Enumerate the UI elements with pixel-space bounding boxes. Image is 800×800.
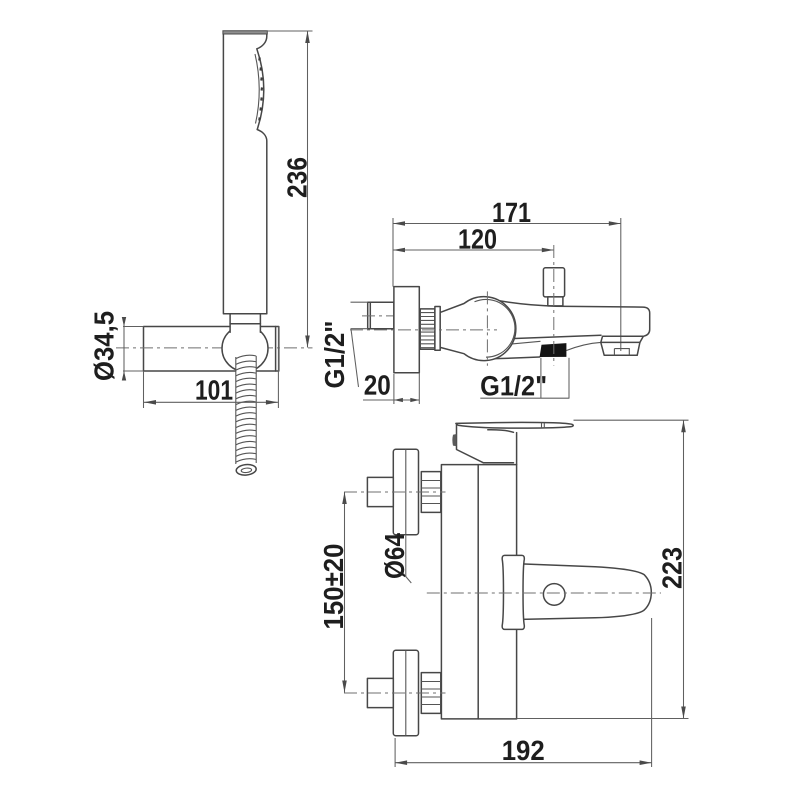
- lower inlet eccentric disc: [393, 650, 418, 735]
- dimension 192: [394, 738, 396, 767]
- dimension Ø34,5: [123, 326, 144, 328]
- G1/2 bottom thread black ring: [540, 343, 567, 357]
- wall union fitting (side view): [368, 302, 394, 329]
- body barrel and spout: [492, 300, 650, 337]
- handset spray face inner line: [255, 54, 259, 124]
- svg-text:101: 101: [195, 375, 233, 406]
- upper inlet eccentric disc: [393, 449, 418, 534]
- hose end cap: [236, 464, 257, 476]
- G1/2" bottom label: [540, 358, 542, 398]
- svg-text:Ø64: Ø64: [379, 533, 410, 579]
- dome inner arc: [475, 299, 515, 357]
- upper inlet centerline: [344, 491, 446, 493]
- handset connector nut: [231, 315, 260, 346]
- svg-text:192: 192: [502, 735, 545, 766]
- svg-text:Ø34,5: Ø34,5: [89, 311, 120, 381]
- handset spray nozzles: [258, 57, 261, 60]
- spout underside lines: [498, 335, 601, 339]
- hand shower handset body: [223, 34, 266, 314]
- svg-text:20: 20: [364, 370, 391, 401]
- lever axis centerline: [427, 592, 661, 594]
- dimension 236: [267, 30, 313, 32]
- top cap: [457, 424, 514, 463]
- shower hose (spiral): [236, 349, 256, 373]
- dimension 223: [574, 419, 689, 421]
- upper inlet hex nut: [421, 472, 441, 513]
- G1/2 left label leader: [351, 301, 368, 303]
- dimension 101: [143, 371, 145, 408]
- lower inlet hex nut: [421, 673, 441, 714]
- svg-text:G1/2": G1/2": [319, 321, 350, 389]
- lever screw hole: [543, 584, 565, 606]
- wall plate (side view): [394, 287, 419, 373]
- lower inlet centerline: [344, 692, 446, 694]
- wall bracket cylinder: [144, 327, 279, 372]
- dimension 150±20: [344, 492, 346, 693]
- knob / 120 centerline: [553, 245, 555, 366]
- svg-text:G1/2": G1/2": [480, 370, 547, 401]
- aerator: [601, 336, 643, 355]
- wall bracket end cap line: [275, 327, 277, 372]
- svg-text:150±20: 150±20: [318, 544, 349, 630]
- lower inlet wall connector: [367, 678, 393, 707]
- swivel ball joint: [222, 325, 268, 371]
- cartridge dome (cone): [440, 297, 516, 361]
- svg-text:171: 171: [492, 197, 531, 228]
- body axis centerline: [350, 329, 497, 331]
- dimension 120: [393, 249, 554, 251]
- dimension 20: [393, 374, 395, 404]
- fitting centerline: [362, 315, 400, 317]
- bracket centerline: [116, 347, 313, 349]
- svg-text:236: 236: [282, 157, 313, 198]
- dimension Ø64: [405, 536, 407, 577]
- handset top cap: [223, 31, 267, 34]
- diverter knob: [543, 268, 564, 297]
- svg-text:120: 120: [458, 224, 497, 255]
- svg-text:223: 223: [657, 547, 688, 589]
- upper inlet wall connector: [367, 477, 393, 506]
- lever neck: [502, 555, 524, 629]
- lever plate (top, edge-on): [456, 422, 573, 428]
- knurled connector: [420, 309, 435, 349]
- lever handle (front view): [521, 564, 651, 620]
- cap left tab: [452, 434, 456, 446]
- dimension 171: [392, 218, 394, 287]
- front view body: [441, 465, 516, 719]
- dome vertical centerline: [486, 291, 488, 365]
